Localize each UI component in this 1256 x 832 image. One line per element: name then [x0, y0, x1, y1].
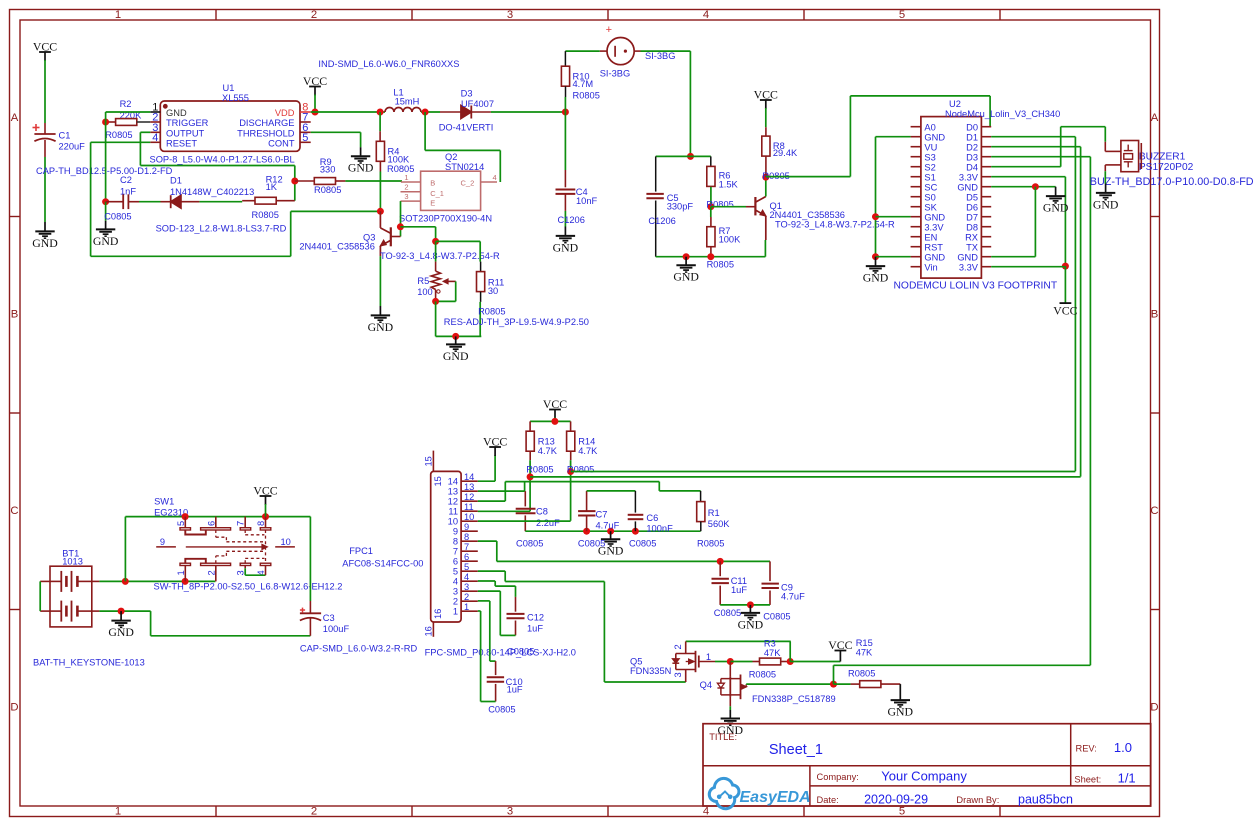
- svg-text:Q4: Q4: [700, 680, 712, 690]
- svg-text:NodeMcu_Lolin_V3_CH340: NodeMcu_Lolin_V3_CH340: [945, 109, 1060, 119]
- svg-text:Your Company: Your Company: [881, 769, 967, 784]
- svg-text:OUTPUT: OUTPUT: [166, 128, 205, 138]
- svg-text:SI-3BG: SI-3BG: [645, 51, 675, 61]
- svg-text:A0: A0: [924, 122, 935, 132]
- svg-text:15: 15: [424, 456, 434, 466]
- svg-text:C0805: C0805: [714, 608, 741, 618]
- svg-text:VCC: VCC: [33, 40, 57, 54]
- svg-text:GND: GND: [32, 236, 58, 250]
- svg-text:3: 3: [453, 587, 458, 597]
- svg-text:pau85bcn: pau85bcn: [1018, 793, 1073, 807]
- svg-text:14: 14: [464, 472, 474, 482]
- svg-text:GND: GND: [957, 252, 978, 262]
- svg-text:16: 16: [433, 609, 443, 619]
- svg-text:7: 7: [453, 547, 458, 557]
- svg-text:R0805: R0805: [105, 130, 132, 140]
- svg-text:U1: U1: [223, 83, 235, 93]
- svg-text:1N4148W_C402213: 1N4148W_C402213: [170, 187, 254, 197]
- svg-text:B: B: [430, 179, 435, 188]
- svg-text:5: 5: [302, 132, 308, 144]
- svg-text:RESET: RESET: [166, 138, 197, 148]
- svg-text:STN0214: STN0214: [445, 162, 484, 172]
- svg-text:CAP-SMD_L6.0-W3.2-R-RD: CAP-SMD_L6.0-W3.2-R-RD: [300, 644, 418, 654]
- svg-text:1: 1: [453, 607, 458, 617]
- svg-text:220uF: 220uF: [59, 142, 86, 152]
- svg-text:Sheet:: Sheet:: [1074, 774, 1101, 784]
- svg-text:1: 1: [176, 570, 186, 575]
- svg-text:GND: GND: [673, 270, 699, 284]
- svg-text:C_1: C_1: [430, 189, 444, 198]
- svg-text:R0805: R0805: [749, 670, 776, 680]
- svg-text:B: B: [11, 309, 19, 321]
- svg-text:SW1: SW1: [154, 496, 174, 506]
- svg-text:14: 14: [448, 477, 458, 487]
- svg-text:GND: GND: [443, 349, 469, 363]
- svg-text:100nF: 100nF: [646, 524, 673, 534]
- svg-text:16: 16: [424, 626, 434, 636]
- svg-text:RX: RX: [965, 232, 978, 242]
- svg-text:15mH: 15mH: [395, 97, 420, 107]
- svg-text:C6: C6: [646, 513, 658, 523]
- svg-text:FPC1: FPC1: [349, 546, 373, 556]
- svg-text:R0805: R0805: [567, 465, 594, 475]
- svg-text:4.7uF: 4.7uF: [596, 520, 620, 530]
- svg-text:GND: GND: [738, 617, 764, 631]
- svg-text:4: 4: [453, 577, 458, 587]
- svg-text:C0805: C0805: [104, 211, 131, 221]
- svg-text:A: A: [1151, 112, 1159, 124]
- svg-text:8: 8: [464, 532, 469, 542]
- svg-text:1: 1: [464, 602, 469, 612]
- svg-text:7: 7: [464, 542, 469, 552]
- svg-text:4.7M: 4.7M: [573, 79, 594, 89]
- svg-text:VCC: VCC: [754, 88, 778, 102]
- svg-text:R14: R14: [578, 437, 595, 447]
- svg-text:GND: GND: [1043, 201, 1069, 215]
- svg-text:1: 1: [706, 652, 711, 662]
- svg-text:+: +: [606, 24, 612, 36]
- svg-text:TRIGGER: TRIGGER: [166, 118, 209, 128]
- svg-text:R13: R13: [538, 437, 555, 447]
- svg-text:2: 2: [453, 597, 458, 607]
- svg-text:R0805: R0805: [697, 539, 724, 549]
- svg-text:THRESHOLD: THRESHOLD: [237, 128, 295, 138]
- svg-text:A: A: [11, 112, 19, 124]
- svg-text:C0805: C0805: [516, 539, 543, 549]
- svg-text:11: 11: [464, 502, 474, 512]
- svg-text:SOT230P700X190-4N: SOT230P700X190-4N: [399, 214, 492, 224]
- svg-text:B: B: [1151, 309, 1159, 321]
- svg-text:47K: 47K: [764, 648, 781, 658]
- svg-text:SOP-8_L5.0-W4.0-P1.27-LS6.0-BL: SOP-8_L5.0-W4.0-P1.27-LS6.0-BL: [150, 155, 295, 165]
- svg-text:Drawn By:: Drawn By:: [956, 795, 999, 805]
- svg-text:C1206: C1206: [558, 215, 585, 225]
- svg-text:SOD-123_L2.8-W1.8-LS3.7-RD: SOD-123_L2.8-W1.8-LS3.7-RD: [156, 224, 287, 234]
- svg-text:R2: R2: [120, 99, 132, 109]
- svg-text:330pF: 330pF: [667, 202, 694, 212]
- svg-text:C0805: C0805: [507, 647, 534, 657]
- svg-text:S1: S1: [924, 172, 935, 182]
- svg-text:D3: D3: [461, 89, 473, 99]
- svg-text:10: 10: [281, 537, 291, 547]
- svg-text:UF4007: UF4007: [461, 99, 494, 109]
- svg-text:9: 9: [160, 537, 165, 547]
- svg-text:3.3V: 3.3V: [924, 222, 944, 232]
- svg-text:3: 3: [236, 570, 246, 575]
- svg-text:10: 10: [464, 512, 474, 522]
- svg-text:VCC: VCC: [1053, 304, 1077, 318]
- svg-text:TX: TX: [966, 242, 978, 252]
- svg-text:8: 8: [256, 521, 266, 526]
- svg-text:GND: GND: [888, 705, 914, 719]
- svg-text:4: 4: [703, 9, 709, 21]
- svg-text:2.2uF: 2.2uF: [536, 518, 560, 528]
- svg-text:BUZ-TH_BD17.0-P10.00-D0.8-FD: BUZ-TH_BD17.0-P10.00-D0.8-FD: [1090, 176, 1254, 188]
- svg-text:VU: VU: [924, 142, 937, 152]
- svg-text:D4: D4: [966, 162, 978, 172]
- svg-text:6: 6: [453, 557, 458, 567]
- svg-text:C0805: C0805: [629, 539, 656, 549]
- svg-text:1.0: 1.0: [1114, 740, 1132, 755]
- svg-text:1: 1: [115, 806, 121, 818]
- svg-text:TITLE:: TITLE:: [709, 732, 737, 742]
- svg-text:GND: GND: [957, 182, 978, 192]
- svg-text:R0805: R0805: [252, 210, 279, 220]
- svg-text:6: 6: [464, 552, 469, 562]
- svg-text:GND: GND: [166, 108, 187, 118]
- svg-text:1uF: 1uF: [527, 624, 543, 634]
- svg-text:C0805: C0805: [578, 539, 605, 549]
- svg-text:4: 4: [152, 132, 158, 144]
- svg-text:SC: SC: [924, 182, 937, 192]
- svg-text:13: 13: [464, 482, 474, 492]
- svg-text:C0805: C0805: [763, 612, 790, 622]
- svg-text:2N4401_C358536: 2N4401_C358536: [299, 242, 374, 252]
- svg-text:D1: D1: [966, 132, 978, 142]
- svg-text:C: C: [10, 505, 18, 517]
- svg-text:NODEMCU LOLIN V3 FOOTPRINT: NODEMCU LOLIN V3 FOOTPRINT: [894, 280, 1058, 291]
- svg-text:AFC08-S14FCC-00: AFC08-S14FCC-00: [342, 559, 423, 569]
- svg-text:D7: D7: [966, 212, 978, 222]
- svg-text:11: 11: [448, 507, 458, 517]
- svg-text:D8: D8: [966, 222, 978, 232]
- svg-text:RES-ADJ-TH_3P-L9.5-W4.9-P2.50: RES-ADJ-TH_3P-L9.5-W4.9-P2.50: [444, 317, 589, 327]
- svg-text:IND-SMD_L6.0-W6.0_FNR60XXS: IND-SMD_L6.0-W6.0_FNR60XXS: [318, 59, 459, 69]
- svg-text:47K: 47K: [856, 648, 873, 658]
- svg-text:12: 12: [464, 492, 474, 502]
- svg-text:1uF: 1uF: [731, 585, 747, 595]
- svg-text:C1: C1: [59, 131, 71, 141]
- svg-text:1/1: 1/1: [1118, 771, 1136, 786]
- svg-text:GND: GND: [863, 271, 889, 285]
- svg-text:EN: EN: [924, 232, 937, 242]
- svg-text:SW-TH_8P-P2.00-S2.50_L6.8-W12.: SW-TH_8P-P2.00-S2.50_L6.8-W12.6-EH12.2: [154, 581, 343, 591]
- svg-text:560K: 560K: [708, 519, 731, 529]
- svg-text:1: 1: [404, 173, 408, 182]
- svg-text:330: 330: [320, 164, 336, 174]
- svg-text:C1206: C1206: [648, 216, 675, 226]
- svg-text:R3: R3: [764, 638, 776, 648]
- svg-text:VCC: VCC: [828, 638, 852, 652]
- svg-text:R0805: R0805: [314, 185, 341, 195]
- svg-text:5: 5: [176, 521, 186, 526]
- svg-text:Sheet_1: Sheet_1: [769, 742, 823, 758]
- svg-text:3.3V: 3.3V: [959, 172, 979, 182]
- svg-text:VCC: VCC: [303, 74, 327, 88]
- svg-text:GND: GND: [1093, 197, 1119, 211]
- svg-text:R0805: R0805: [478, 306, 505, 316]
- svg-text:D: D: [1150, 702, 1158, 714]
- svg-text:100: 100: [417, 287, 433, 297]
- svg-text:C7: C7: [596, 510, 608, 520]
- svg-text:C: C: [1150, 505, 1158, 517]
- svg-text:R1: R1: [708, 508, 720, 518]
- svg-text:2: 2: [673, 644, 683, 649]
- svg-text:REV:: REV:: [1076, 744, 1097, 754]
- svg-text:Vin: Vin: [924, 262, 937, 272]
- svg-text:C3: C3: [323, 613, 335, 623]
- svg-text:12: 12: [448, 497, 458, 507]
- svg-text:9: 9: [464, 522, 469, 532]
- svg-text:1013: 1013: [62, 557, 83, 567]
- svg-text:GND: GND: [348, 161, 374, 175]
- svg-text:6: 6: [206, 521, 216, 526]
- svg-text:30: 30: [488, 286, 498, 296]
- svg-text:DO-41VERTI: DO-41VERTI: [439, 122, 494, 132]
- svg-text:5: 5: [464, 562, 469, 572]
- svg-text:4: 4: [703, 806, 709, 818]
- svg-text:C2: C2: [120, 175, 132, 185]
- svg-text:4.7K: 4.7K: [578, 446, 598, 456]
- svg-text:D2: D2: [966, 142, 978, 152]
- svg-text:R0805: R0805: [573, 90, 600, 100]
- svg-text:4.7K: 4.7K: [538, 446, 558, 456]
- svg-text:3: 3: [404, 192, 408, 201]
- svg-text:3: 3: [507, 9, 513, 21]
- svg-text:R0805: R0805: [526, 465, 553, 475]
- svg-text:1K: 1K: [266, 182, 278, 192]
- svg-text:4: 4: [493, 173, 497, 182]
- svg-text:BAT-TH_KEYSTONE-1013: BAT-TH_KEYSTONE-1013: [33, 657, 145, 667]
- svg-text:2: 2: [404, 183, 408, 192]
- svg-text:TO-92-3_L4.8-W3.7-P2.54-R: TO-92-3_L4.8-W3.7-P2.54-R: [775, 220, 895, 230]
- svg-text:FPC-SMD_P0.80-14P_LCS-XJ-H2.0: FPC-SMD_P0.80-14P_LCS-XJ-H2.0: [425, 648, 576, 658]
- svg-text:2: 2: [311, 806, 317, 818]
- svg-text:10: 10: [448, 517, 458, 527]
- svg-text:R5: R5: [417, 276, 429, 286]
- svg-text:VCC: VCC: [483, 435, 507, 449]
- svg-text:C8: C8: [536, 507, 548, 517]
- svg-text:D5: D5: [966, 192, 978, 202]
- svg-text:Q2: Q2: [445, 152, 457, 162]
- svg-text:3: 3: [507, 806, 513, 818]
- svg-text:100uF: 100uF: [323, 624, 350, 634]
- svg-text:CONT: CONT: [268, 138, 295, 148]
- svg-text:GND: GND: [924, 212, 945, 222]
- svg-text:3: 3: [673, 672, 683, 677]
- svg-text:3: 3: [464, 582, 469, 592]
- svg-text:3.3V: 3.3V: [959, 262, 979, 272]
- svg-text:D6: D6: [966, 202, 978, 212]
- svg-text:2: 2: [311, 9, 317, 21]
- svg-text:GND: GND: [93, 234, 119, 248]
- svg-text:FDN335N: FDN335N: [630, 666, 671, 676]
- svg-text:R0805: R0805: [707, 260, 734, 270]
- svg-text:2020-09-29: 2020-09-29: [864, 793, 928, 807]
- svg-text:BUZZER1: BUZZER1: [1139, 151, 1186, 162]
- svg-text:R0805: R0805: [848, 668, 875, 678]
- svg-text:VCC: VCC: [253, 484, 277, 498]
- svg-text:S3: S3: [924, 152, 935, 162]
- svg-text:EasyEDA: EasyEDA: [740, 789, 811, 806]
- svg-text:10nF: 10nF: [576, 196, 598, 206]
- svg-text:8: 8: [453, 537, 458, 547]
- svg-text:15: 15: [433, 476, 443, 486]
- svg-text:29.4K: 29.4K: [773, 148, 798, 158]
- svg-text:PS1720P02: PS1720P02: [1139, 162, 1194, 173]
- svg-text:5: 5: [453, 567, 458, 577]
- svg-text:SK: SK: [924, 202, 937, 212]
- svg-text:9: 9: [453, 527, 458, 537]
- svg-text:GND: GND: [108, 625, 134, 639]
- svg-text:U2: U2: [949, 99, 961, 109]
- svg-text:DISCHARGE: DISCHARGE: [239, 118, 294, 128]
- svg-text:D: D: [10, 702, 18, 714]
- svg-text:CAP-TH_BD12.5-P5.00-D1.2-FD: CAP-TH_BD12.5-P5.00-D1.2-FD: [36, 166, 173, 176]
- svg-text:2: 2: [464, 592, 469, 602]
- svg-text:Company:: Company:: [817, 772, 859, 782]
- svg-text:XL555: XL555: [222, 93, 249, 103]
- svg-text:S0: S0: [924, 192, 935, 202]
- svg-text:C12: C12: [527, 613, 544, 623]
- svg-text:GND: GND: [553, 240, 579, 254]
- svg-text:100K: 100K: [719, 235, 742, 245]
- svg-text:R0805: R0805: [387, 164, 414, 174]
- svg-text:GND: GND: [924, 252, 945, 262]
- svg-text:VDD: VDD: [275, 108, 295, 118]
- svg-text:Date:: Date:: [817, 795, 839, 805]
- svg-text:S2: S2: [924, 162, 935, 172]
- svg-text:2: 2: [206, 570, 216, 575]
- svg-text:1.5K: 1.5K: [719, 179, 739, 189]
- svg-text:E: E: [430, 199, 435, 208]
- svg-text:FDN338P_C518789: FDN338P_C518789: [752, 694, 836, 704]
- svg-text:2N4401_C358536: 2N4401_C358536: [770, 210, 845, 220]
- svg-text:1: 1: [115, 9, 121, 21]
- svg-text:R15: R15: [856, 638, 873, 648]
- svg-text:4: 4: [464, 572, 469, 582]
- svg-text:TO-92-3_L4.8-W3.7-P2.54-R: TO-92-3_L4.8-W3.7-P2.54-R: [380, 251, 500, 261]
- svg-text:C_2: C_2: [461, 179, 475, 188]
- svg-text:D0: D0: [966, 122, 978, 132]
- svg-text:100K: 100K: [388, 155, 411, 165]
- svg-text:5: 5: [899, 806, 905, 818]
- svg-text:13: 13: [448, 487, 458, 497]
- svg-text:C0805: C0805: [488, 705, 515, 715]
- svg-text:D1: D1: [170, 176, 182, 186]
- svg-text:RST: RST: [924, 242, 943, 252]
- svg-text:4.7uF: 4.7uF: [781, 592, 805, 602]
- svg-text:VCC: VCC: [543, 397, 567, 411]
- svg-text:D3: D3: [966, 152, 978, 162]
- svg-text:GND: GND: [368, 320, 394, 334]
- svg-text:5: 5: [899, 9, 905, 21]
- svg-text:GND: GND: [924, 132, 945, 142]
- svg-text:7: 7: [236, 521, 246, 526]
- svg-text:1uF: 1uF: [507, 685, 523, 695]
- svg-text:SI-3BG: SI-3BG: [600, 69, 630, 79]
